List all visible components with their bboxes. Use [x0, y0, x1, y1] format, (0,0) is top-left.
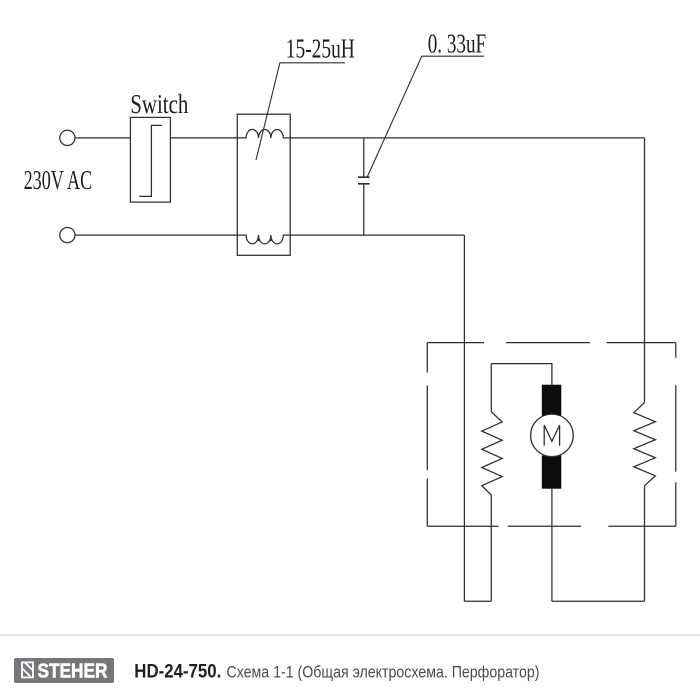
- terminal T1 (top input): [60, 130, 75, 145]
- wire R2 bottom lead: [644, 486, 646, 602]
- wire bottom right jog: [552, 600, 645, 602]
- switch S1 box: [130, 117, 170, 202]
- leader line for label 15-25uH: [256, 63, 345, 160]
- resistor R2 (right field winding): [634, 403, 656, 486]
- wire R1 bottom lead: [490, 495, 492, 601]
- terminal T2 (bottom input): [60, 228, 75, 243]
- wire R1 over to motor M1: [491, 364, 552, 385]
- switch S1 contact symbol: [139, 125, 162, 196]
- enclosure dashed box (motor assembly): [427, 343, 676, 527]
- wire L1 to node corner (bottom rail): [290, 234, 464, 236]
- wire bottom jog to R1: [464, 600, 491, 602]
- svg-text:Switch: Switch: [130, 88, 188, 119]
- wire M1 bottom lead: [551, 489, 553, 602]
- svg-text:HD-24-750.: HD-24-750.: [134, 661, 221, 682]
- wire node down left side of enclosure: [463, 235, 465, 601]
- motor M1 letter M: [544, 425, 559, 446]
- inductor L1 box: [237, 114, 290, 255]
- wire T2 to inductor L1 (bottom): [75, 234, 237, 236]
- capacitor C1 plates: [358, 177, 370, 184]
- wire switch S1 to inductor L1 (top): [170, 137, 237, 139]
- footer divider: [0, 634, 700, 636]
- capacitor C1 bottom lead: [363, 185, 365, 236]
- wire R1 top lead: [490, 364, 492, 412]
- motor M1 bottom brush: [542, 456, 562, 489]
- wire T1 to switch S1: [75, 137, 130, 139]
- motor M1 top brush: [542, 385, 562, 417]
- logo STEHER: [14, 658, 114, 683]
- wire L1 to top-right corner: [290, 137, 644, 139]
- motor M1 body: [531, 414, 574, 457]
- resistor R1 (left field winding): [482, 412, 502, 495]
- svg-text:Схема 1-1 (Общая электросхема.: Схема 1-1 (Общая электросхема. Перфорато…: [227, 662, 540, 681]
- capacitor C1 top lead: [363, 138, 365, 177]
- wire right vertical down to resistor R2: [644, 138, 646, 403]
- svg-text:STEHER: STEHER: [38, 661, 108, 683]
- inductor L1 top winding: [237, 130, 290, 138]
- svg-text:230V AC: 230V AC: [24, 164, 93, 195]
- leader line for label 0.33uF: [367, 56, 484, 177]
- inductor L1 bottom winding: [237, 235, 290, 244]
- svg-text:15-25uH: 15-25uH: [286, 33, 355, 64]
- svg-text:0. 33uF: 0. 33uF: [428, 28, 487, 59]
